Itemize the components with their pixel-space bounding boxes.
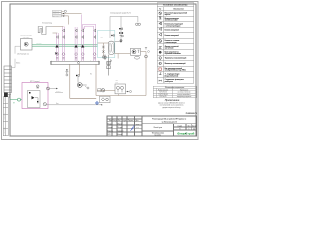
svg-text:П-ВК2009-ПЗ: П-ВК2009-ПЗ [186,113,198,115]
svg-text:Примечание: Примечание [165,99,180,102]
svg-text:Условные обозначения: Условные обозначения [163,4,188,6]
